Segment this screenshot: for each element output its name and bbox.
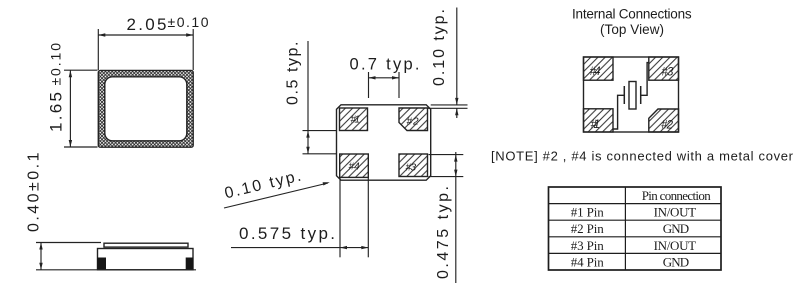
svg-text:#3 Pin: #3 Pin <box>571 238 605 253</box>
dimension 0.10 top extension lines <box>431 104 468 106</box>
seating baseline <box>36 269 196 271</box>
pad #4 <box>340 154 369 177</box>
dimension line 0.575 <box>231 247 368 249</box>
svg-text:#2: #2 <box>407 117 419 128</box>
leader arrow 0.10 <box>323 182 330 185</box>
svg-text:Pin connection: Pin connection <box>642 188 712 203</box>
arrow left 0.7 <box>369 76 376 79</box>
svg-text:#2 Pin: #2 Pin <box>571 221 605 236</box>
dimension line 0.10 top <box>456 8 458 105</box>
arrow right 0.575 <box>361 246 368 249</box>
arrow right 2.05 <box>186 33 193 36</box>
arrow up 0.475 <box>454 155 457 162</box>
dimension line 0.5 <box>307 41 309 154</box>
arrow up 0.5 <box>306 131 309 138</box>
svg-text:#4: #4 <box>590 66 601 78</box>
arrow up 0.10 <box>455 108 458 115</box>
svg-text:#4: #4 <box>349 162 360 173</box>
leader line 0.10 <box>224 183 328 208</box>
crystal left plate <box>623 86 625 104</box>
table row lines <box>549 203 722 205</box>
dimension 0.40 extension line top <box>36 242 101 244</box>
pad #2 (bottom-right, chamfered) <box>649 109 679 132</box>
crystal body <box>629 82 636 110</box>
dimension 2.05 extension line left <box>97 29 99 70</box>
side view lid <box>104 243 188 247</box>
svg-text:GND: GND <box>663 221 690 236</box>
svg-text:#2: #2 <box>661 120 674 132</box>
svg-text:±0.10: ±0.10 <box>168 14 209 30</box>
dimension 1.65 extension line bottom <box>64 146 98 148</box>
dimension 0.7 extension lines <box>368 72 370 98</box>
arrow top 0.40 <box>39 243 42 250</box>
svg-text:2.05: 2.05 <box>127 15 167 34</box>
dimension line 0.40 <box>40 243 42 270</box>
dimension line 0.7 <box>369 77 400 79</box>
crystal right plate <box>640 86 642 104</box>
svg-text:IN/OUT: IN/OUT <box>654 238 697 253</box>
svg-text:[NOTE] #2 , #4 is connected wi: [NOTE] #2 , #4 is connected with a metal… <box>491 149 794 164</box>
dimension line 0.475 <box>455 152 457 283</box>
dimension line 1.65 <box>69 70 71 147</box>
wire crystal to pad #1 <box>613 95 624 129</box>
arrow down 0.10 <box>455 98 458 105</box>
dimension 0.575 extension lines <box>339 178 341 257</box>
dimension 1.65 extension line top <box>64 69 98 71</box>
side view body <box>98 249 194 270</box>
pad #4 (top-left) <box>584 57 614 80</box>
svg-text:±0.10: ±0.10 <box>48 43 64 86</box>
arrow bottom 0.40 <box>39 263 42 270</box>
dimension 0.5 extension lines <box>303 130 337 132</box>
svg-text:0.575 typ.: 0.575 typ. <box>239 224 335 243</box>
arrow top 1.65 <box>69 70 72 77</box>
wire crystal to pad #3 <box>641 63 649 96</box>
land pattern outline (chamfered) <box>337 105 431 180</box>
side view left terminal pad <box>97 258 106 271</box>
pad #3 (top-right) <box>649 57 679 80</box>
svg-text:#3: #3 <box>661 66 674 78</box>
svg-text:#4 Pin: #4 Pin <box>571 254 605 269</box>
svg-text:#1: #1 <box>591 119 601 131</box>
dimension line 2.05 <box>98 34 193 36</box>
svg-text:#1: #1 <box>351 115 361 126</box>
dimension 0.475 extension lines <box>429 154 464 156</box>
arrow down 0.5 <box>306 147 309 154</box>
arrow right 0.7 <box>392 76 399 79</box>
svg-text:Internal Connections: Internal Connections <box>572 7 692 22</box>
pad #1 (bottom-left) <box>584 109 614 132</box>
package inner cavity <box>105 77 187 141</box>
svg-text:IN/OUT: IN/OUT <box>654 205 697 220</box>
internal connections outline <box>584 57 679 132</box>
arrow left 2.05 <box>98 33 105 36</box>
pad #1 <box>340 108 368 131</box>
arrow down 0.475 <box>454 170 457 177</box>
svg-text:1.65: 1.65 <box>47 92 66 132</box>
arrow bottom 1.65 <box>69 140 72 147</box>
dimension 2.05 extension line right <box>192 29 194 70</box>
svg-text:0.10 typ.: 0.10 typ. <box>431 9 448 86</box>
svg-text:(Top View): (Top View) <box>600 22 664 37</box>
svg-text:0.475 typ.: 0.475 typ. <box>435 186 452 279</box>
package body hatched rim <box>98 70 193 147</box>
table outer border <box>549 187 722 270</box>
side view right terminal pad <box>186 258 194 271</box>
table column divider <box>624 187 626 270</box>
svg-text:#3: #3 <box>406 163 417 174</box>
arrow left 0.575 <box>340 246 347 249</box>
svg-text:GND: GND <box>663 254 690 269</box>
pad #2 (chamfered corner) <box>399 108 428 131</box>
pad #3 <box>399 154 428 177</box>
svg-text:#1 Pin: #1 Pin <box>571 205 605 220</box>
